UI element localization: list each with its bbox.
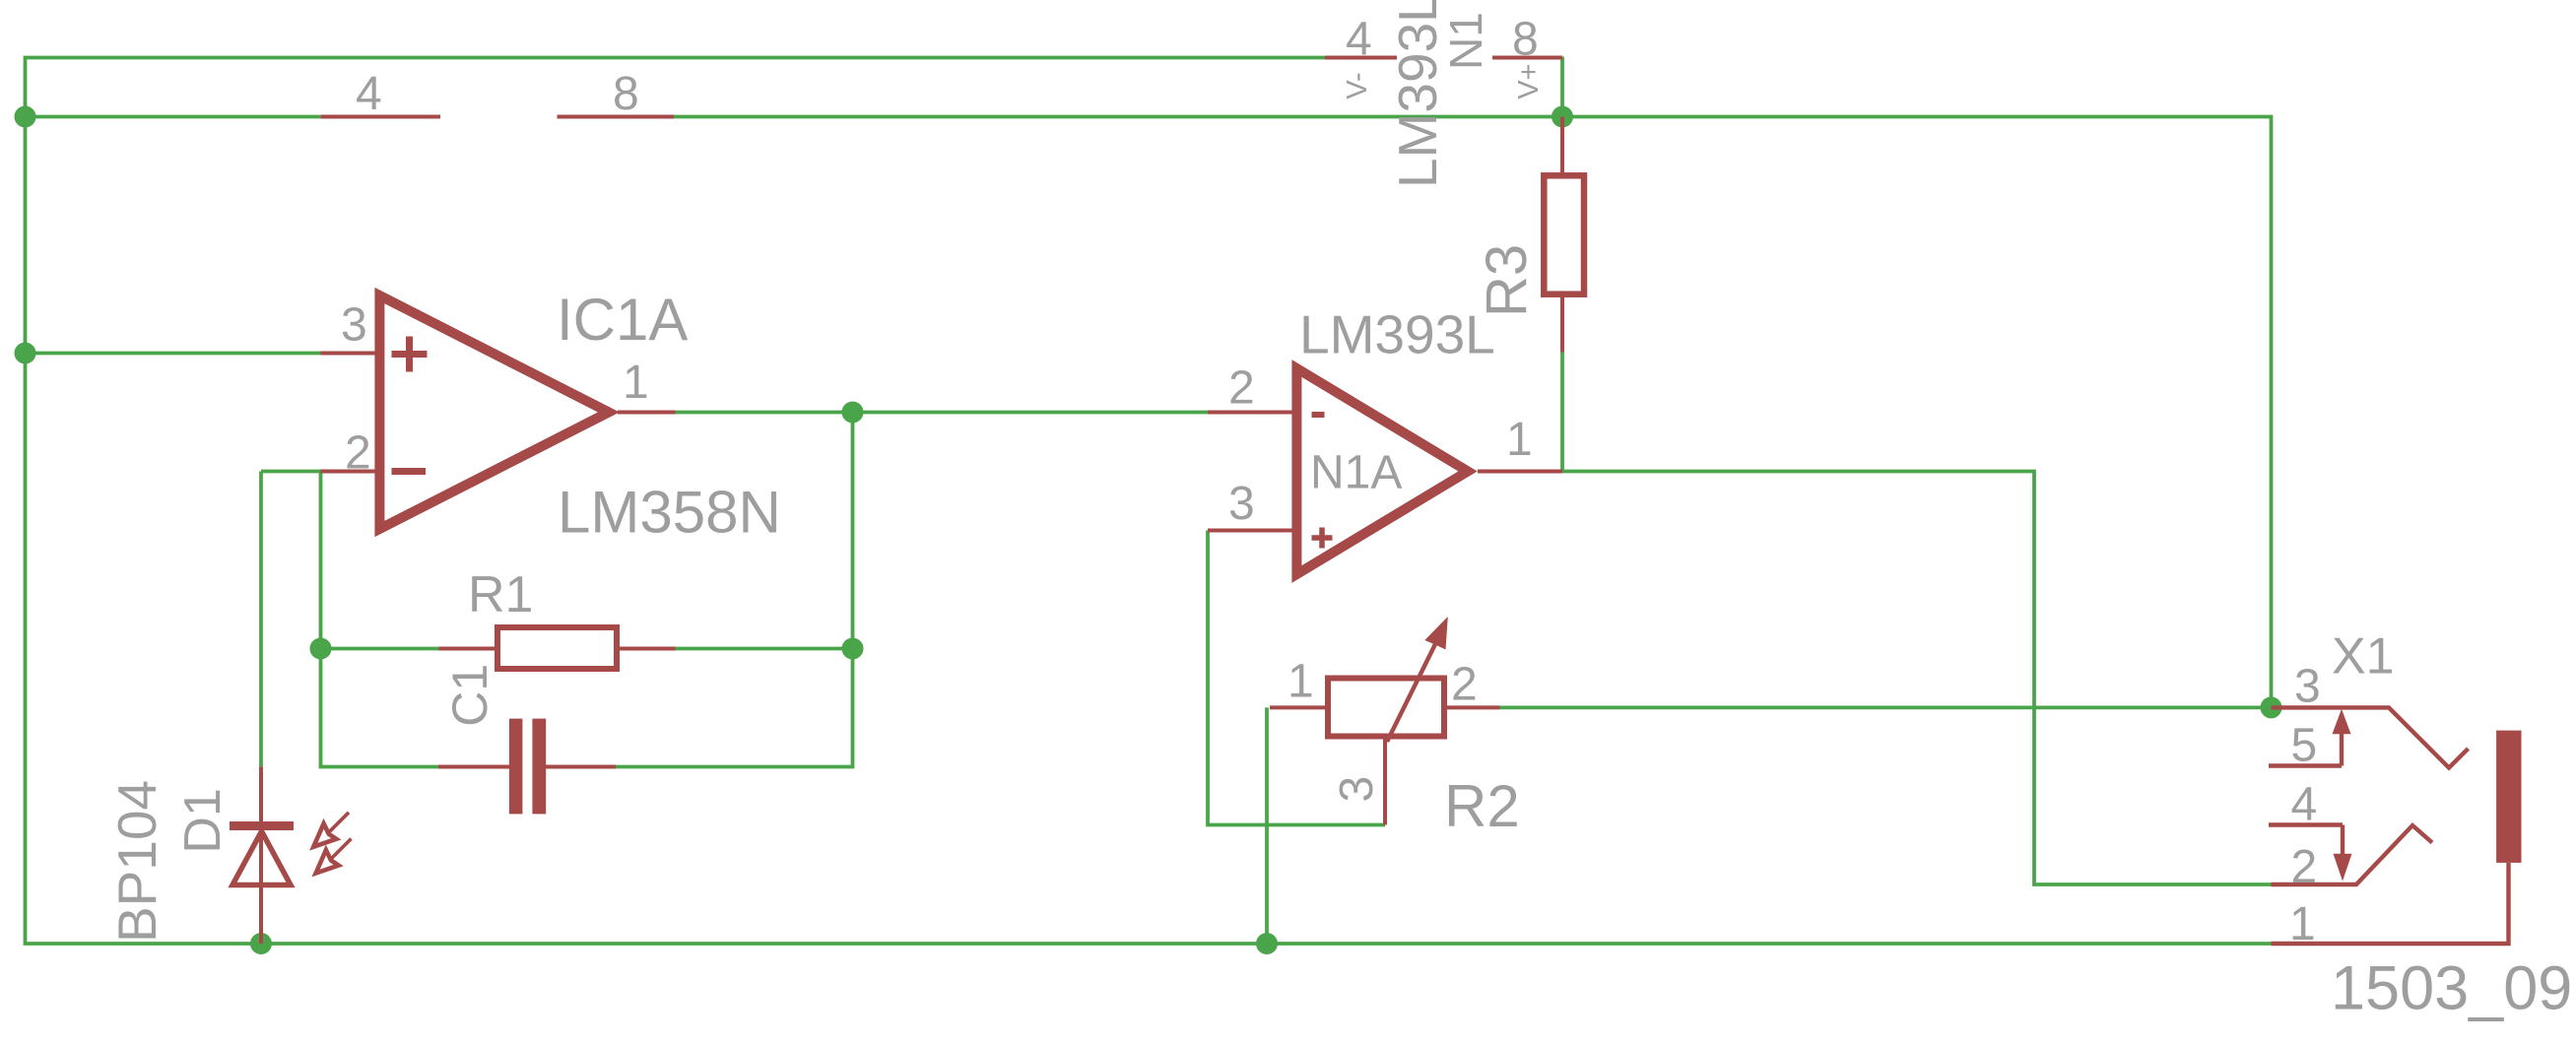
svg-text:1: 1 — [2289, 898, 2316, 950]
svg-text:X1: X1 — [2332, 628, 2395, 686]
svg-text:N1A: N1A — [1310, 446, 1402, 498]
svg-text:D1: D1 — [174, 788, 231, 853]
svg-text:3: 3 — [2294, 661, 2321, 713]
svg-text:3: 3 — [1228, 478, 1255, 530]
svg-text:1: 1 — [1288, 656, 1314, 708]
svg-text:2: 2 — [2291, 841, 2318, 893]
svg-text:2: 2 — [1228, 362, 1255, 415]
svg-text:5: 5 — [2291, 719, 2318, 771]
svg-text:BP104: BP104 — [106, 780, 167, 943]
svg-text:LM393L: LM393L — [1387, 0, 1448, 188]
svg-text:1: 1 — [1506, 414, 1533, 466]
svg-text:2: 2 — [1451, 658, 1478, 710]
svg-text:LM393L: LM393L — [1299, 304, 1495, 365]
svg-text:IC1A: IC1A — [557, 287, 688, 353]
svg-text:V+: V+ — [1513, 64, 1545, 99]
svg-text:R2: R2 — [1444, 773, 1520, 839]
svg-text:4: 4 — [1346, 13, 1372, 65]
svg-text:R3: R3 — [1475, 244, 1539, 317]
svg-text:4: 4 — [356, 68, 382, 120]
svg-text:1: 1 — [623, 357, 649, 409]
svg-text:V-: V- — [1342, 72, 1373, 98]
svg-text:R1: R1 — [468, 566, 533, 623]
svg-text:C1: C1 — [442, 664, 497, 727]
svg-text:1503_09: 1503_09 — [2331, 954, 2572, 1023]
svg-text:8: 8 — [1512, 13, 1539, 65]
svg-text:LM358N: LM358N — [558, 480, 781, 546]
svg-text:4: 4 — [2291, 778, 2318, 830]
svg-text:3: 3 — [341, 299, 367, 352]
svg-text:2: 2 — [345, 426, 371, 479]
svg-text:N1: N1 — [1440, 12, 1491, 70]
svg-text:3: 3 — [1331, 776, 1383, 803]
svg-text:8: 8 — [613, 68, 639, 120]
